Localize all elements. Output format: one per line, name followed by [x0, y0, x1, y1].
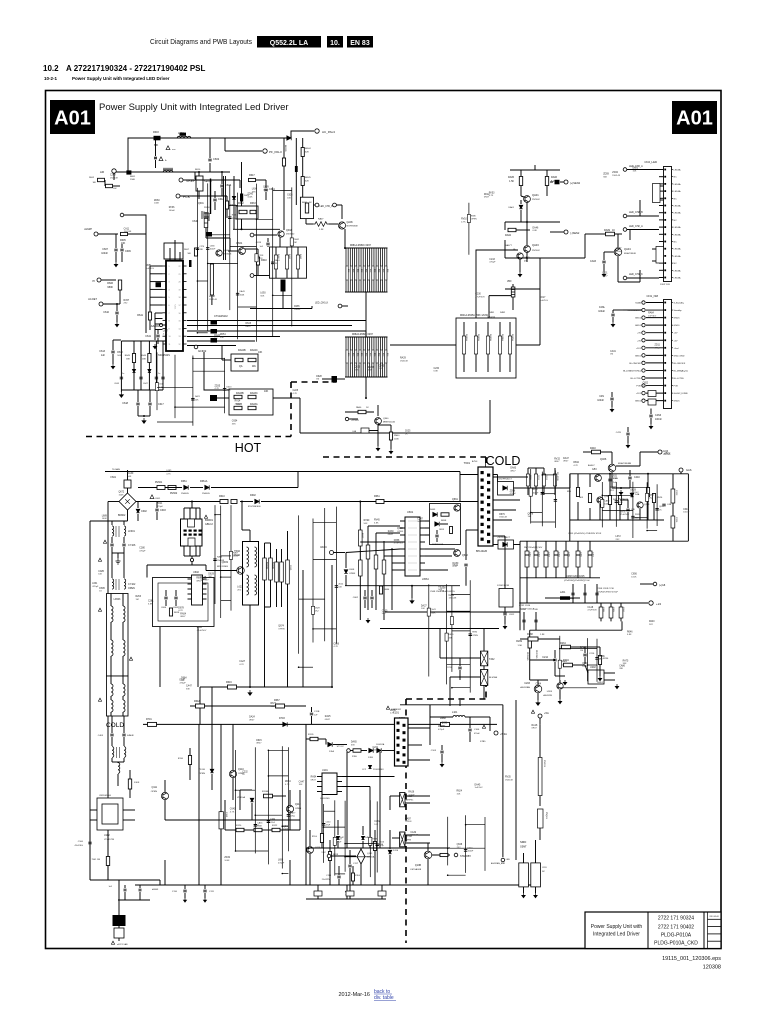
svg-text:RA22: RA22 [649, 493, 655, 496]
svg-text:C230: C230 [475, 294, 481, 296]
svg-text:RA63: RA63 [562, 660, 568, 663]
svg-text:6.8K: 6.8K [627, 634, 632, 636]
wire mesh horizontal [257, 218, 273, 220]
wire mesh vertical [601, 482, 603, 527]
svg-text:Standby: Standby [674, 309, 683, 312]
components below snubber [136, 403, 139, 405]
svg-text:GtUG2_DVBB: GtUG2_DVBB [674, 392, 689, 395]
svg-text:RA07: RA07 [318, 218, 324, 221]
svg-text:PSC01: PSC01 [543, 760, 545, 768]
terminal SEN2 minus [564, 230, 568, 234]
wire mesh vertical [298, 515, 300, 653]
svg-text:CY106: CY106 [128, 544, 136, 547]
wire mesh vertical [596, 639, 598, 682]
svg-text:Q661: Q661 [452, 498, 459, 501]
wire mesh vertical [281, 746, 283, 868]
svg-text:C206: C206 [675, 517, 677, 523]
transformer primary return [466, 529, 478, 531]
component in mesh [469, 634, 472, 636]
wire mesh vertical [465, 815, 467, 873]
svg-text:C238 C204 C215: C238 C204 C215 [566, 575, 585, 578]
wire mesh horizontal [452, 630, 470, 632]
wire mesh vertical [324, 508, 326, 641]
svg-text:100K: 100K [582, 666, 588, 668]
svg-text:LED_CH0_K: LED_CH0_K [315, 303, 329, 305]
svg-text:LF603: LF603 [114, 598, 121, 601]
svg-text:LED_CH1_K: LED_CH1_K [629, 273, 643, 276]
svg-text:S10K: S10K [134, 782, 140, 784]
wire mesh horizontal [208, 262, 238, 264]
svg-text:100nF: 100nF [408, 795, 415, 797]
svg-text:OPEN: OPEN [278, 629, 285, 631]
svg-text:OPEN: OPEN [151, 791, 158, 793]
svg-text:CA85: CA85 [98, 570, 104, 573]
svg-text:DA01: DA01 [509, 206, 515, 209]
svg-text:R644A: R644A [501, 334, 504, 341]
svg-text:G63: G63 [579, 497, 584, 499]
svg-text:680K: 680K [107, 286, 113, 289]
grounds SMD [522, 893, 526, 898]
component in mesh [595, 658, 598, 660]
wire mesh horizontal [542, 493, 555, 495]
svg-text:Q641: Q641 [431, 609, 437, 611]
svg-text:T202: T202 [489, 658, 495, 661]
svg-text:R642A: R642A [477, 334, 480, 341]
isolation boundary dashed HOT line [86, 436, 291, 438]
black component bottom [113, 915, 126, 926]
wire QA bottom [505, 257, 585, 259]
svg-text:2K2: 2K2 [315, 611, 319, 613]
black bar top right of IC [189, 260, 192, 267]
wire mesh horizontal [335, 873, 345, 875]
cap C106 [468, 729, 471, 731]
svg-text:QA02: QA02 [223, 249, 229, 252]
svg-text:56K: 56K [438, 589, 442, 591]
svg-text:RA07T: RA07T [505, 244, 512, 247]
svg-text:C647: C647 [143, 383, 149, 385]
svg-text:C613: C613 [99, 350, 105, 353]
cap CY106 [122, 544, 125, 546]
wire mesh horizontal [257, 320, 273, 322]
svg-text:R620A: R620A [266, 562, 269, 569]
svg-text:C654: C654 [232, 421, 238, 423]
svg-text:RA30: RA30 [388, 530, 394, 533]
jumper box CN2 lower [656, 247, 664, 264]
wire choke bottom down [249, 605, 251, 687]
svg-text:Q666: Q666 [610, 487, 616, 489]
svg-text:C641: C641 [599, 656, 605, 658]
component in mesh [445, 633, 448, 641]
svg-text:100uF: 100uF [598, 310, 605, 313]
cap C608 [344, 570, 348, 574]
svg-text:R11G: R11G [355, 875, 361, 877]
svg-text:AC-DET: AC-DET [88, 298, 97, 301]
svg-text:OPEN: OPEN [199, 773, 206, 775]
component in mesh [287, 815, 290, 817]
array box R641 group [456, 318, 516, 378]
svg-text:R4B1: R4B1 [489, 312, 495, 314]
svg-text:MGHT6N48: MGHT6N48 [624, 253, 636, 255]
wire mesh horizontal [447, 664, 471, 666]
terminal PCK41 [345, 417, 348, 420]
ground U203 [536, 700, 540, 705]
wires output cluster internals [577, 474, 579, 487]
svg-text:C4N3: C4N3 [655, 414, 662, 417]
svg-text:C228: C228 [293, 390, 299, 392]
wire mains row2 to choke [200, 501, 220, 503]
svg-text:+5rel: +5rel [674, 347, 679, 350]
svg-text:GND1: GND1 [597, 682, 604, 684]
svg-text:1K: 1K [405, 433, 408, 435]
sub box right of U661 [430, 504, 461, 545]
shunt regulator U203 [534, 685, 542, 693]
inductor L601 on top bus [177, 136, 191, 138]
component in mesh [311, 606, 314, 614]
svg-text:RV45: RV45 [374, 520, 380, 522]
svg-text:PE21BD: PE21BD [526, 652, 528, 661]
svg-text:RV67: RV67 [124, 300, 130, 302]
svg-text:0R47: 0R47 [196, 580, 202, 582]
capacitor C604 [220, 185, 223, 187]
svg-text:QA04: QA04 [624, 247, 631, 251]
svg-text:R234: R234 [560, 642, 566, 645]
resistor R209 [528, 638, 531, 648]
svg-text:R68: R68 [373, 269, 375, 272]
terminal +G8 right [653, 582, 657, 586]
svg-text:+5P/9510ECT: +5P/9510ECT [497, 537, 511, 539]
vacc terminal [330, 551, 334, 555]
resistor R238 [528, 637, 538, 641]
vertical rail x368 [367, 526, 369, 610]
svg-text:470pF: 470pF [438, 729, 445, 731]
tall resistor right of IC [210, 264, 213, 295]
svg-text:GND1: GND1 [635, 318, 642, 320]
wire mesh horizontal [616, 487, 647, 489]
svg-text:R686: R686 [471, 216, 477, 218]
resistor R662 on rail [359, 530, 363, 546]
svg-text:BL-DIM(50%VNC): BL-DIM(50%VNC) [623, 370, 641, 372]
svg-text:SSC620S: SSC620S [320, 798, 330, 800]
terminal +24 [649, 601, 653, 605]
svg-text:RA29: RA29 [400, 357, 406, 360]
svg-text:R11E: R11E [352, 756, 358, 758]
fuse icon F102 [106, 857, 109, 866]
svg-text:1nF: 1nF [109, 886, 113, 888]
resistor PSC01 vertical [539, 724, 541, 757]
svg-text:100K: 100K [373, 750, 379, 752]
svg-text:56K: 56K [364, 523, 368, 525]
cap C108 [440, 751, 443, 753]
bottom bus standby [135, 884, 540, 886]
svg-text:2N7002: 2N7002 [532, 250, 540, 252]
wire B+ to transformer [460, 501, 478, 503]
bus under cap row [520, 577, 600, 579]
resistor inside shield [169, 608, 172, 616]
svg-text:CA47: CA47 [186, 685, 192, 688]
transformer T603 small [112, 747, 114, 758]
snubber verticals [120, 341, 122, 390]
resistor R668 [441, 722, 450, 726]
svg-text:470pF: 470pF [180, 682, 187, 684]
svg-text:R6U5: R6U5 [305, 177, 311, 179]
svg-text:120308: 120308 [703, 965, 721, 971]
black component left pin [156, 282, 162, 287]
zener ZD110A [250, 798, 254, 802]
svg-text:1uF: 1uF [260, 246, 264, 248]
svg-text:18K: 18K [126, 359, 130, 361]
svg-text:BL-I-CTRL: BL-I-CTRL [631, 378, 642, 380]
svg-text:R661: R661 [374, 495, 380, 498]
svg-text:R642: R642 [194, 700, 200, 703]
resistor R103 bottom [114, 928, 124, 938]
svg-text:CNP002000: CNP002000 [99, 795, 112, 797]
svg-text:U661: U661 [407, 510, 414, 514]
svg-text:1N4148: 1N4148 [400, 360, 408, 362]
svg-text:AR: AR [100, 170, 105, 174]
svg-text:R632: R632 [238, 202, 244, 205]
svg-text:C604: C604 [161, 607, 167, 609]
mosfet Q601b symbol [202, 211, 209, 221]
wire mesh horizontal [193, 357, 225, 359]
cap C115 tall [220, 724, 222, 812]
diode D11A [328, 742, 332, 746]
svg-text:33K: 33K [442, 725, 446, 727]
svg-text:R69: R69 [369, 353, 371, 356]
svg-text:PE27BD: PE27BD [535, 650, 537, 659]
svg-text:CA32: CA32 [410, 831, 416, 834]
svg-text:LED4A: LED4A [674, 212, 681, 215]
resistor box R632 R633 pair [236, 206, 258, 219]
cap C212 [553, 659, 556, 661]
svg-text:100K: 100K [257, 826, 262, 828]
svg-text:1.9K: 1.9K [540, 634, 545, 636]
svg-text:R440: R440 [590, 447, 596, 450]
diode D4D [361, 836, 364, 839]
transistor QA06 [338, 222, 345, 229]
wire HOT B+ rail upper [105, 471, 460, 473]
svg-text:20: 20 [179, 282, 181, 284]
svg-text:100K: 100K [394, 439, 399, 441]
svg-text:PI: PI [93, 279, 96, 283]
svg-text:D613: D613 [227, 386, 233, 388]
svg-text:DA63: DA63 [580, 646, 586, 649]
svg-text:DA39: DA39 [128, 472, 134, 475]
vertical rail x360 [359, 502, 361, 621]
svg-text:AS431AN_BBR: AS431AN_BBR [491, 862, 506, 865]
svg-text:2K2: 2K2 [616, 539, 621, 541]
svg-text:100nF: 100nF [597, 399, 604, 402]
svg-text:33K: 33K [186, 689, 190, 691]
svg-text:4.7K: 4.7K [293, 393, 298, 395]
svg-text:R526: R526 [657, 497, 663, 499]
svg-text:R601: R601 [130, 176, 136, 178]
wire top bus AC line [128, 131, 314, 172]
transistor Q113 low [307, 847, 314, 854]
wire reg row [530, 659, 555, 661]
wire y628 bus [380, 628, 499, 630]
svg-text:4.7K: 4.7K [285, 784, 290, 786]
svg-text:R691: R691 [196, 578, 202, 580]
svg-text:SSC9522S: SSC9522S [158, 354, 170, 357]
svg-text:div. table: div. table [374, 995, 394, 1001]
svg-text:LF601: LF601 [128, 530, 135, 533]
svg-text:C662: C662 [353, 597, 359, 599]
opto U202 [588, 670, 604, 684]
wire mesh horizontal [299, 598, 325, 600]
svg-text:1n: 1n [122, 373, 124, 375]
wire drop x303 [302, 570, 304, 687]
svg-text:100nF: 100nF [271, 706, 278, 708]
wire bus mid [147, 564, 206, 566]
svg-text:1.3K: 1.3K [319, 229, 324, 231]
svg-text:RV77: RV77 [438, 586, 444, 588]
svg-text:NC: NC [542, 871, 545, 873]
svg-text:1K: 1K [242, 774, 245, 776]
ground below snubber [142, 418, 146, 423]
resistor R667 [276, 704, 285, 708]
svg-text:56K: 56K [260, 296, 264, 298]
svg-text:U602: U602 [193, 571, 199, 574]
svg-text:R602: R602 [89, 177, 95, 179]
header tab 10. [327, 36, 343, 48]
svg-text:PLDG-P010A: PLDG-P010A [661, 933, 692, 939]
svg-text:ZD60: ZD60 [154, 200, 160, 202]
caps inside shield [164, 597, 167, 599]
svg-text:L101: L101 [452, 711, 458, 714]
svg-text:R624: R624 [457, 791, 463, 793]
component in mesh [335, 586, 338, 588]
wire mid right link [476, 250, 518, 318]
svg-text:R68: R68 [356, 269, 358, 272]
filter module box LF604 [107, 676, 129, 716]
svg-text:BL-ON/OFF: BL-ON/OFF [674, 363, 686, 365]
wire mesh vertical [632, 482, 634, 538]
svg-text:100nF: 100nF [468, 851, 474, 853]
svg-text:R69: R69 [364, 353, 366, 356]
svg-text:220UF/REV: 220UF/REV [373, 769, 384, 771]
svg-text:1K: 1K [366, 407, 369, 409]
svg-text:1N4148: 1N4148 [124, 231, 132, 233]
svg-text:R664: R664 [384, 589, 390, 591]
svg-text:C812: C812 [509, 614, 515, 616]
svg-text:A01: A01 [54, 108, 91, 130]
svg-text:100K: 100K [604, 504, 609, 506]
wire mesh vertical [646, 482, 648, 528]
svg-text:C11B: C11B [326, 875, 332, 877]
svg-text:+PCK61: +PCK61 [351, 420, 360, 422]
varistor RV602 [168, 486, 176, 490]
device SE015 [196, 176, 203, 191]
svg-text:+LED/PF040CT: +LED/PF040CT [497, 479, 512, 481]
svg-text:AS431AN: AS431AN [520, 686, 530, 689]
svg-text:1M: 1M [294, 242, 297, 244]
diode D661A [205, 485, 209, 489]
svg-text:Q683: Q683 [582, 663, 588, 665]
bus y229 [233, 228, 280, 230]
resistor R701 on standby bus [148, 722, 157, 726]
svg-text:C212: C212 [542, 656, 548, 659]
wire transformer top left [460, 474, 478, 476]
svg-text:SDA5: SDA5 [635, 302, 641, 305]
wire mesh vertical [335, 507, 337, 644]
component in mesh [223, 389, 226, 391]
component in mesh [376, 844, 379, 846]
svg-text:C656: C656 [334, 643, 340, 645]
svg-text:CA18: CA18 [587, 606, 593, 609]
svg-text:6.8K: 6.8K [643, 385, 648, 387]
svg-text:LED4A: LED4A [674, 255, 681, 258]
svg-text:GND1: GND1 [635, 401, 642, 403]
svg-text:2K2: 2K2 [649, 624, 654, 626]
svg-text:33K: 33K [232, 423, 236, 425]
svg-text:R620B: R620B [272, 562, 274, 569]
svg-text:Q601: Q601 [198, 203, 204, 205]
wires U101 to T101 [342, 776, 395, 778]
svg-text:GND1: GND1 [635, 325, 642, 327]
wires mid right [585, 646, 600, 648]
svg-text:R682A-R682K 0R47: R682A-R682K 0R47 [352, 333, 374, 336]
svg-text:1M: 1M [599, 659, 602, 661]
svg-text:C276: C276 [199, 246, 205, 248]
svg-text:18: 18 [179, 297, 181, 299]
svg-text:NC: NC [674, 242, 678, 244]
svg-text:C680: C680 [210, 246, 216, 248]
svg-text:CA35: CA35 [382, 609, 388, 612]
header tab Q552.2L LA [257, 36, 321, 48]
transistor QA02b [524, 246, 531, 253]
standby IC U101 box [322, 773, 337, 795]
svg-text:BL-DIM(Asym): BL-DIM(Asym) [674, 369, 689, 372]
svg-text:62K: 62K [305, 181, 309, 183]
svg-text:1M: 1M [379, 368, 382, 370]
svg-text:BYV26E/600: BYV26E/600 [248, 506, 261, 508]
resistor R4B0 banded [511, 287, 515, 297]
svg-text:C216: C216 [589, 653, 595, 655]
svg-text:6.8K: 6.8K [434, 371, 439, 373]
svg-text:10K: 10K [633, 171, 637, 173]
svg-text:470p: 470p [290, 816, 295, 818]
transistor Q406 [608, 464, 616, 472]
svg-text:VRF: VRF [507, 281, 512, 283]
IC U601 right control bus wires [187, 320, 366, 322]
svg-text:470p: 470p [379, 845, 384, 847]
comb array 2 resistors [345, 337, 347, 377]
electrolytic cap row [526, 541, 528, 578]
wire mesh horizontal [602, 494, 633, 496]
svg-text:ZD90: ZD90 [247, 194, 253, 196]
resistor R642b [196, 704, 205, 708]
svg-text:POK: POK [636, 386, 641, 388]
svg-text:4.7K: 4.7K [259, 258, 264, 260]
svg-text:P5Q01: P5Q01 [545, 812, 547, 820]
svg-text:10K: 10K [457, 793, 461, 795]
resistor R6U4 62K [301, 148, 304, 157]
wires pfc area verticals [159, 627, 161, 687]
svg-text:DA27: DA27 [421, 604, 427, 607]
wire mesh horizontal [157, 387, 193, 389]
svg-text:C205 (47uF/50V) 47UF/63V 47UF: C205 (47uF/50V) 47UF/63V 47UF [568, 533, 602, 535]
wire mesh vertical [192, 356, 194, 426]
svg-text:R4A3: R4A3 [299, 254, 302, 260]
svg-text:C607: C607 [102, 248, 108, 251]
component in mesh [267, 821, 270, 823]
wire GND2 run down [204, 352, 229, 390]
component in mesh [646, 493, 649, 501]
svg-text:CA03: CA03 [590, 260, 597, 263]
capacitor C4x [608, 479, 611, 481]
svg-text:C232 C246: C232 C246 [519, 605, 531, 607]
wire mesh vertical [369, 800, 371, 877]
